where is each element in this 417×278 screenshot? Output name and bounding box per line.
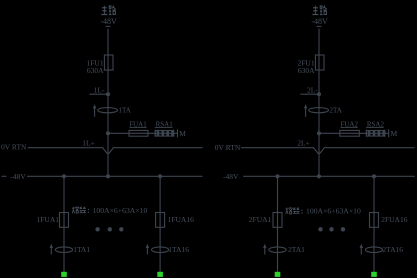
svg-text:100A×6+63A×10: 100A×6+63A×10 [93, 206, 148, 215]
terminal (green) branch 1FUA1 [61, 272, 67, 277]
wire (shunt RSA2 to meter bar) [385, 132, 389, 134]
wire (bus to fuse 2FUA16) [373, 176, 375, 212]
wire (node 1L- to CT 1TA) [107, 94, 109, 133]
CT 1TA arrow [93, 104, 96, 117]
fuse 2FUA16 [370, 213, 379, 228]
junction dot (left meter tap) [106, 131, 110, 135]
svg-text:2FUA16: 2FUA16 [381, 215, 408, 224]
label RSA1 (underlined) [155, 121, 173, 129]
fuse 2FUA1 [273, 213, 282, 228]
wire (bus to fuse 2FUA1) [277, 176, 279, 212]
junction dot (left bus / feeder) [106, 174, 110, 178]
junction dot (right meter tap) [317, 131, 321, 135]
wire (bus to fuse 1FUA1) [63, 176, 65, 212]
wire (through fuse 2FUA1) [277, 213, 279, 228]
svg-text:-48V: -48V [10, 172, 26, 181]
wire (fuse 2FUA16 to terminal) [373, 227, 375, 271]
CT 1TA16 arrow [146, 244, 149, 255]
junction dot (right bus / branch 2FUA1) [275, 174, 279, 178]
svg-text:M: M [391, 129, 398, 138]
junction dot (right bus / branch 2FUA16) [372, 174, 376, 178]
terminal tick (left feeder top) [106, 25, 111, 27]
node label 主路 (right feeder) [312, 5, 326, 14]
wire (shunt RSA1 to meter bar) [174, 132, 178, 134]
CT 2TA16 arrow [360, 244, 363, 255]
ellipsis dots (left) [95, 227, 123, 231]
svg-text:0V RTN: 0V RTN [215, 143, 241, 152]
bus -48V (right) [243, 175, 415, 177]
terminal tick (right feeder top) [317, 25, 322, 27]
wire (through fuse 1FUA16) [159, 213, 161, 228]
svg-text:2TA16: 2TA16 [382, 245, 403, 254]
svg-text:630A: 630A [87, 66, 104, 75]
wire (through fuse FUA1) [129, 132, 155, 134]
label RSA2 (underlined) [366, 121, 384, 129]
wire (through fuse FUA2) [340, 132, 367, 134]
fuse FUA2 [340, 130, 360, 136]
label 熔丝：100A×6+63A×10 (right) [286, 207, 361, 216]
svg-text:2TA1: 2TA1 [288, 245, 305, 254]
svg-text:1TA16: 1TA16 [168, 245, 189, 254]
CT 2TA arrow [304, 104, 307, 117]
svg-text:-48V: -48V [100, 17, 117, 26]
CT 1TA1 arrow [50, 244, 53, 255]
bus 0V RTN (right) with hop [241, 148, 414, 154]
svg-text:1FUA16: 1FUA16 [168, 215, 195, 224]
junction dot (right bus / feeder) [317, 174, 321, 178]
CT 2TA16 ellipse [365, 247, 382, 253]
svg-text:1TA1: 1TA1 [73, 245, 90, 254]
fuse FUA1 [129, 130, 148, 136]
CT 1TA ellipse [98, 108, 118, 113]
svg-text:-48V: -48V [223, 172, 239, 181]
wire (fuse 1FU1 to node 1L-) [107, 70, 109, 94]
fuse 1FU1 [104, 55, 113, 70]
wire (fuse 2FUA1 to terminal) [277, 227, 279, 271]
label 熔丝：100A×6+63A×10 (left) [72, 206, 147, 215]
wire (through fuse 1FUA1) [63, 213, 65, 228]
bus 0V RTN (left) with hop [28, 148, 203, 154]
wire (fuse 2FU1 to node 2L-) [318, 70, 320, 94]
wire (right feeder drop to fuse) [318, 29, 320, 55]
fuse 2FU1 [315, 55, 324, 70]
wire (left feeder drop to fuse) [107, 29, 109, 55]
wire (through fuse 1FU1) [107, 55, 109, 70]
wire (tap to fuse FUA1) [108, 132, 129, 134]
fuse 1FUA16 [156, 213, 165, 228]
terminal (green) branch 1FUA16 [157, 272, 163, 277]
meter terminal bar (left) [177, 129, 179, 137]
node 2L- junction dot [317, 92, 321, 96]
meter terminal bar (right) [388, 129, 390, 137]
svg-text:630A: 630A [298, 66, 315, 75]
node label 主路 (left feeder) [101, 5, 115, 14]
wire (through fuse 2FU1) [318, 55, 320, 70]
wire (node 2L- to CT 2TA) [318, 94, 320, 133]
node 1L- junction dot [106, 92, 110, 96]
wire (bus to fuse 1FUA16) [159, 176, 161, 212]
wire (fuse 1FUA16 to terminal) [159, 227, 161, 271]
shunt RSA2 [366, 130, 384, 137]
junction dot (left bus / branch 1FUA16) [158, 174, 162, 178]
CT 2TA ellipse [309, 108, 329, 113]
CT 2TA1 arrow [263, 244, 266, 255]
svg-text:2L-: 2L- [307, 85, 318, 94]
junction dot (left bus / branch 1FUA1) [62, 174, 66, 178]
svg-text:1L-: 1L- [94, 85, 105, 94]
svg-text:2TA: 2TA [330, 106, 342, 114]
svg-text:2L+: 2L+ [297, 138, 310, 147]
svg-text:2FUA1: 2FUA1 [249, 215, 272, 224]
label FUA2 (underlined) [340, 121, 358, 129]
wire (right tap down to -48V bus) [318, 133, 320, 176]
fuse 1FUA1 [60, 213, 69, 228]
bus -48V (left) lead-in segment [2, 175, 7, 177]
svg-text:M: M [179, 129, 186, 138]
CT 1TA1 ellipse [55, 247, 72, 253]
svg-text:100A×6+63A×10: 100A×6+63A×10 [306, 207, 361, 216]
node 1L- tick [89, 93, 108, 95]
shunt RSA1 [155, 130, 173, 137]
wire (tap down to -48V bus) [107, 133, 109, 176]
wire (through fuse 2FUA16) [373, 213, 375, 228]
wire (fuse 1FUA1 to CT 1TA1) [63, 227, 65, 271]
label FUA1 (underlined) [129, 121, 147, 129]
ellipsis dots (right) [318, 227, 345, 231]
svg-text:0V RTN: 0V RTN [1, 143, 27, 152]
CT 2TA1 ellipse [269, 247, 286, 253]
bus -48V (left) [27, 175, 203, 177]
svg-text:1L+: 1L+ [82, 138, 95, 147]
svg-text:1TA: 1TA [119, 106, 131, 114]
node 2L- tick [300, 93, 319, 95]
svg-text:1FUA1: 1FUA1 [36, 215, 59, 224]
svg-text:-48V: -48V [311, 17, 328, 26]
CT 1TA16 ellipse [152, 247, 169, 253]
terminal (green) branch 2FUA16 [371, 272, 377, 277]
terminal (green) branch 2FUA1 [275, 272, 281, 277]
wire (tap to fuse FUA2) [319, 132, 340, 134]
